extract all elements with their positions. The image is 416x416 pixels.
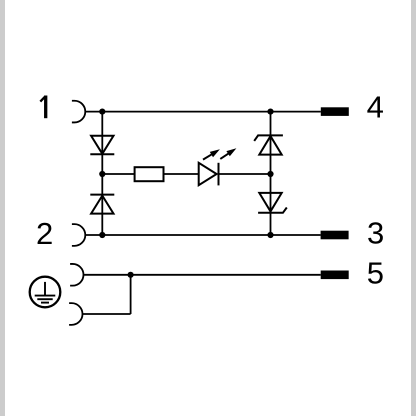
svg-text:4: 4 xyxy=(367,89,384,124)
svg-text:5: 5 xyxy=(367,255,384,290)
svg-text:2: 2 xyxy=(36,216,53,251)
svg-text:3: 3 xyxy=(367,216,384,251)
